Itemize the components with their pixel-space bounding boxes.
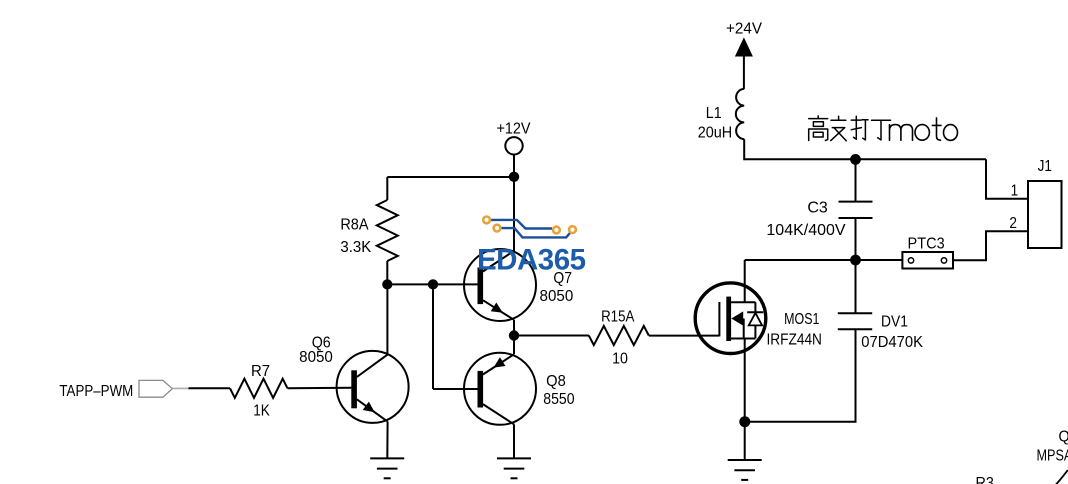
wire rail corner down to J1 pin1 xyxy=(986,159,1028,199)
svg-text:L1: L1 xyxy=(706,104,722,122)
power +12V terminal circle xyxy=(505,137,522,154)
wire +12V circle to junction xyxy=(513,155,515,177)
junction node B (Q8 base tap) xyxy=(428,279,438,289)
PTC3 terminal right xyxy=(941,258,946,263)
svg-text:R8A: R8A xyxy=(340,216,369,234)
junction node C xyxy=(509,330,519,340)
wire Q6 emitter down to ground xyxy=(386,422,388,459)
wire DV1 to node D xyxy=(745,329,856,422)
wire node C to R15A xyxy=(514,335,589,337)
svg-text:2: 2 xyxy=(1009,215,1017,232)
svg-text:Q8: Q8 xyxy=(546,372,566,390)
wire to Q8 base xyxy=(433,388,478,390)
wire R8A top lead xyxy=(386,177,388,200)
junction node D (source) xyxy=(739,416,750,427)
svg-text:8550: 8550 xyxy=(543,390,574,408)
wire rail to C3 xyxy=(855,159,857,201)
capacitor C3 xyxy=(839,201,873,203)
svg-text:8050: 8050 xyxy=(299,349,333,366)
wire node D to ground xyxy=(744,422,746,460)
junction drain rail / DV1 xyxy=(850,255,861,266)
resistor R8A xyxy=(377,200,398,261)
power +24V arrow xyxy=(736,39,752,57)
wire node B down xyxy=(432,284,434,389)
svg-text:20uH: 20uH xyxy=(698,124,732,142)
wire top rail (motor net) xyxy=(744,158,986,160)
svg-text:+24V: +24V xyxy=(726,20,762,37)
thermistor PTC3 box xyxy=(902,252,953,269)
ground (Q6) xyxy=(370,457,404,459)
PTC3 terminal left xyxy=(908,258,913,263)
svg-text:EDA365: EDA365 xyxy=(477,243,586,276)
wire +24V to L1 xyxy=(743,50,745,89)
wire C3 to drain rail xyxy=(855,218,857,260)
wire Q8 collector down to ground xyxy=(513,424,515,458)
junction top rail / C3 xyxy=(850,154,861,165)
resistor R7 xyxy=(230,379,288,398)
svg-text:1: 1 xyxy=(1011,183,1019,200)
wire R8A bottom lead xyxy=(386,261,388,284)
port TAPP-PWM flag symbol xyxy=(139,380,172,397)
wire gray stub from port xyxy=(172,387,189,389)
wire port to R7 xyxy=(189,387,231,389)
inductor L1 xyxy=(736,89,744,139)
svg-text:3.3K: 3.3K xyxy=(340,239,372,257)
wire L1 to top rail xyxy=(743,139,746,159)
caption 高攴打丁 (stroke drawn) xyxy=(809,116,891,141)
wire +12V rail to R8A top xyxy=(387,176,514,178)
svg-text:+12V: +12V xyxy=(496,120,531,138)
watermark pad 1 xyxy=(483,217,490,224)
transistor Q7 xyxy=(464,249,536,321)
svg-text:10: 10 xyxy=(612,350,628,368)
wire Q8 emitter to node C xyxy=(513,336,515,355)
watermark EDA365 logo traces xyxy=(491,220,570,238)
wire MOS1 source down to node D xyxy=(744,339,746,422)
svg-text:8050: 8050 xyxy=(540,287,574,304)
wire junction down to Q7 collector xyxy=(513,177,515,251)
wire drain rail xyxy=(745,259,903,261)
svg-text:C3: C3 xyxy=(807,200,828,217)
wire R15A to MOS1 gate xyxy=(649,335,720,337)
junction node A (R8A/Q6) xyxy=(382,279,392,289)
watermark pad 3 xyxy=(553,227,560,234)
wire Q6 collector up to node A xyxy=(386,284,388,354)
ground (MOS1) xyxy=(728,459,762,461)
ground (Q8) xyxy=(497,457,531,459)
svg-text:R15A: R15A xyxy=(601,308,634,325)
wire J1 pin2 to PTC3 xyxy=(953,231,1028,260)
watermark pad 4 xyxy=(569,226,576,233)
wire MOS1 drain up to drain rail xyxy=(744,260,746,302)
svg-text:J1: J1 xyxy=(1038,158,1052,175)
svg-text:TAPP–PWM: TAPP–PWM xyxy=(59,383,133,400)
svg-text:IRFZ44N: IRFZ44N xyxy=(766,332,821,349)
caption moto (stroke drawn) xyxy=(890,118,958,140)
wire R7 to Q6 base xyxy=(288,387,352,390)
watermark pad 2 xyxy=(494,225,501,232)
MOSFET MOS1 xyxy=(695,283,766,354)
junction +12V node xyxy=(509,172,519,182)
svg-text:1K: 1K xyxy=(253,402,270,419)
resistor R15A xyxy=(589,326,649,345)
wire node A horizontal to Q7 base xyxy=(387,283,477,285)
wire Q7 emitter to node C xyxy=(513,320,515,336)
svg-text:MOS1: MOS1 xyxy=(784,311,819,329)
wire rail to DV1 xyxy=(855,260,857,313)
partial transistor circle fragment xyxy=(1056,470,1068,484)
svg-text:07D470K: 07D470K xyxy=(861,334,923,352)
varistor DV1 xyxy=(838,312,872,314)
svg-text:Q: Q xyxy=(1059,428,1068,446)
transistor Q8 xyxy=(464,353,536,425)
svg-text:MPSA: MPSA xyxy=(1037,447,1068,465)
svg-text:DV1: DV1 xyxy=(881,312,908,330)
svg-text:104K/400V: 104K/400V xyxy=(766,222,846,239)
svg-text:R3: R3 xyxy=(976,475,994,484)
svg-text:PTC3: PTC3 xyxy=(908,235,945,253)
connector J1 box xyxy=(1028,181,1062,248)
transistor Q6 xyxy=(337,351,409,423)
svg-text:R7: R7 xyxy=(251,363,270,381)
